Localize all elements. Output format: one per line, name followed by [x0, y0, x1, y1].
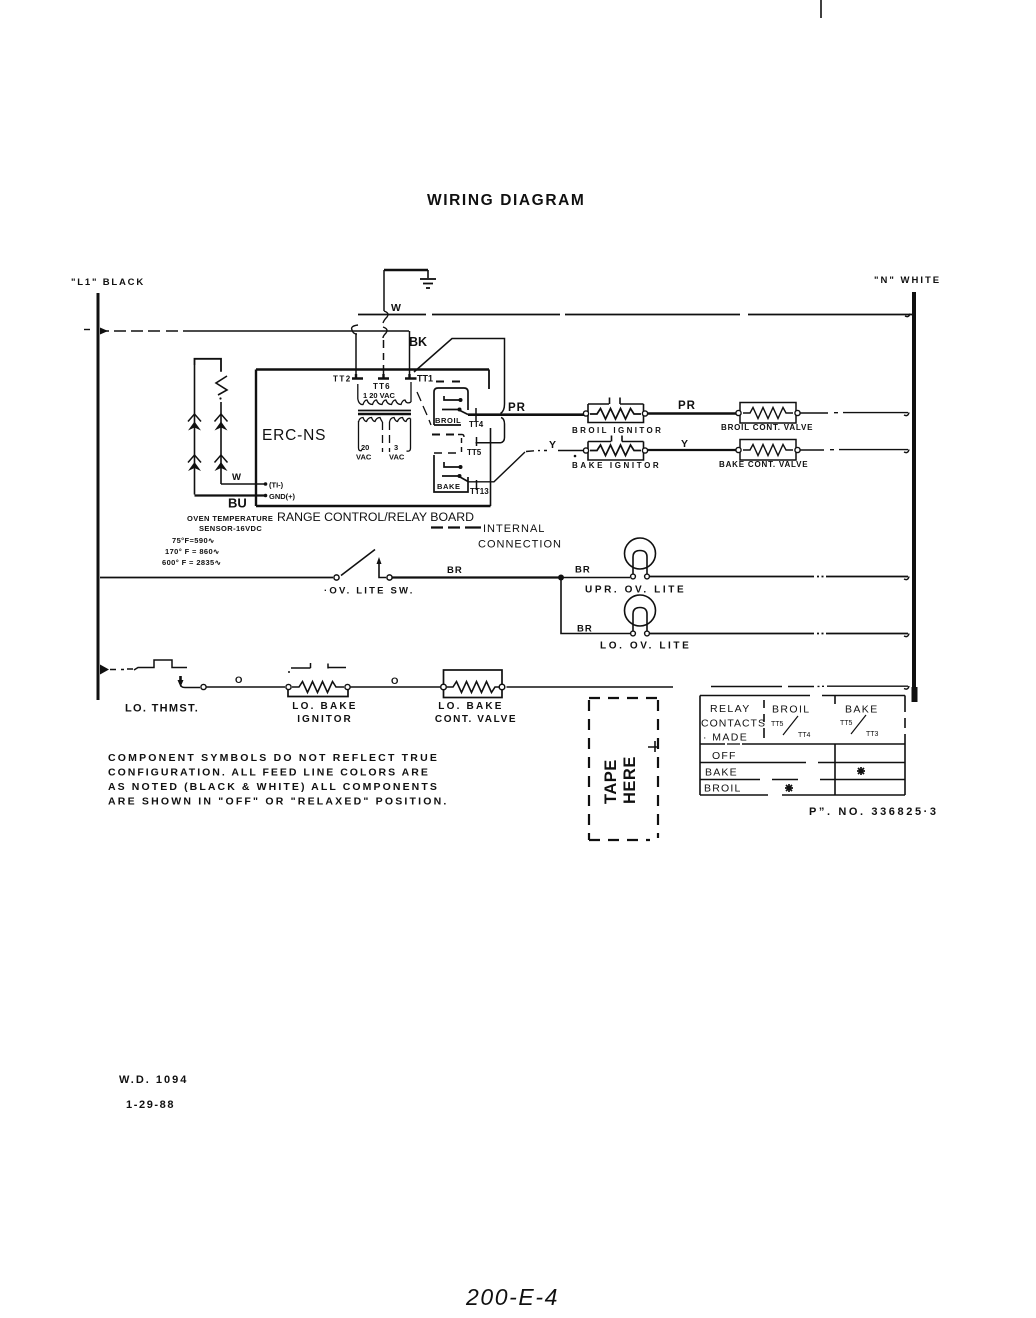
svg-text:TAPE: TAPE: [602, 759, 620, 804]
svg-text:BR: BR: [577, 624, 593, 635]
svg-text:O: O: [391, 676, 398, 687]
svg-text:IGNITOR: IGNITOR: [297, 714, 352, 725]
box ERC-NS range control/relay board: [256, 370, 491, 507]
svg-text:PR: PR: [678, 400, 696, 412]
svg-text:OVEN TEMPERATURE: OVEN TEMPERATURE: [187, 514, 273, 523]
svg-text:O: O: [235, 675, 242, 686]
wire drop to TT2 with hop: [355, 334, 357, 374]
terminal TT1: [405, 374, 417, 379]
sensor oven temperature loop: [195, 359, 228, 495]
svg-text:LO. BAKE: LO. BAKE: [438, 701, 503, 712]
svg-text:W: W: [391, 302, 401, 314]
wire internal dashed to TT5: [432, 434, 454, 436]
svg-text:CONFIGURATION. ALL FEED LINE: CONFIGURATION. ALL FEED LINE COLORS ARE: [108, 767, 430, 779]
wire W line: [358, 314, 912, 316]
svg-text:ARE SHOWN IN "OFF" OR "RELAXED: ARE SHOWN IN "OFF" OR "RELAXED" POSITION…: [108, 796, 449, 808]
table relay contacts: [648, 696, 905, 796]
terminal TT13: [476, 480, 478, 490]
thermostat LO. THMST.: [100, 665, 109, 675]
svg-text:BK: BK: [409, 335, 427, 349]
asterisk bake row: [857, 767, 865, 775]
svg-text:VAC: VAC: [356, 453, 372, 462]
svg-text:TT2: TT2: [333, 375, 352, 384]
wire Y dash-dot: [526, 451, 547, 452]
svg-text:COMPONENT SYMBOLS DO NOT REFLE: COMPONENT SYMBOLS DO NOT REFLECT TRUE: [108, 752, 439, 764]
svg-text:CONTACTS: CONTACTS: [701, 718, 766, 730]
svg-text:TT5: TT5: [840, 720, 853, 727]
stray dot: [574, 455, 577, 458]
svg-text:TT3: TT3: [866, 731, 879, 738]
wire lo bake valve to N bus: [507, 685, 909, 688]
svg-text:BROIL: BROIL: [704, 783, 742, 795]
resistor LO. BAKE CONT. VALVE: [444, 670, 503, 698]
svg-text:WIRING DIAGRAM: WIRING DIAGRAM: [427, 192, 585, 209]
svg-text:LO. BAKE: LO. BAKE: [292, 701, 357, 712]
svg-text:· MADE: · MADE: [703, 732, 748, 744]
wire junction to upper lamp: [561, 577, 630, 579]
wire W hook at N bus: [905, 314, 910, 317]
svg-text:600° F = 2835∿: 600° F = 2835∿: [162, 558, 222, 567]
wire Y row left: [558, 450, 585, 452]
wire lower lamp to N bus: [650, 633, 908, 635]
wire PR mid: [648, 412, 736, 414]
svg-text:HERE: HERE: [621, 756, 639, 804]
terminal TT4: [475, 408, 477, 421]
relay K2 BAKE contact: [434, 453, 468, 492]
svg-text:1-29-88: 1-29-88: [126, 1099, 175, 1111]
svg-text:BR: BR: [447, 565, 463, 576]
bus N: [912, 292, 916, 690]
svg-text:PR: PR: [508, 402, 526, 414]
svg-text:P”. NO. 336825·3: P”. NO. 336825·3: [809, 806, 939, 818]
resistor BROIL IGNITOR: [588, 398, 644, 423]
svg-text:CONNECTION: CONNECTION: [478, 539, 562, 551]
junction dot: [558, 575, 564, 581]
terminal TT5: [476, 437, 478, 446]
wire BK to relay common (diagonal up and over): [414, 339, 505, 414]
resistor BAKE IGNITOR: [588, 436, 644, 461]
resistor BROIL CONT. VALVE: [740, 403, 796, 424]
lamp LO. OV. LITE: [625, 595, 656, 626]
svg-text:(TI-): (TI-): [269, 481, 284, 490]
legend internal connection: [431, 526, 481, 528]
svg-text:20: 20: [361, 443, 369, 452]
svg-text:UPR. OV. LITE: UPR. OV. LITE: [585, 585, 686, 596]
wire L1 to oven light switch: [100, 577, 333, 579]
svg-text:AS NOTED (BLACK & WHITE) ALL: AS NOTED (BLACK & WHITE) ALL COMPONENTS: [108, 781, 439, 793]
wire L1 feed BK: [84, 329, 90, 331]
sensor arrow chevrons left: [188, 414, 201, 463]
svg-text:BROIL: BROIL: [772, 704, 811, 716]
svg-text:LO. THMST.: LO. THMST.: [125, 703, 199, 715]
svg-text:Y: Y: [681, 438, 688, 450]
wire sensor BU to board: [195, 494, 265, 496]
svg-text:ERC-NS: ERC-NS: [262, 427, 326, 444]
svg-text:RANGE CONTROL/RELAY BOARD: RANGE CONTROL/RELAY BOARD: [277, 510, 474, 524]
svg-text:OFF: OFF: [712, 750, 737, 762]
terminal (TI-): [264, 482, 268, 486]
wire internal dashes TT1 to broil relay: [436, 381, 460, 383]
svg-text:RELAY: RELAY: [710, 703, 751, 715]
wire drop to TT1: [409, 331, 411, 374]
stray top-right tick: [820, 0, 822, 18]
svg-text:BAKE CONT. VALVE: BAKE CONT. VALVE: [719, 460, 808, 469]
svg-text:"L1" BLACK: "L1" BLACK: [71, 277, 145, 288]
svg-text:BAKE: BAKE: [437, 482, 461, 491]
bus L1: [97, 293, 100, 700]
resistor LO. BAKE IGNITOR: [288, 663, 348, 697]
box TAPE HERE: [589, 698, 658, 840]
svg-text:CONT. VALVE: CONT. VALVE: [435, 714, 517, 725]
svg-text:170° F = 860∿: 170° F = 860∿: [165, 547, 220, 556]
svg-text:·OV. LITE SW.: ·OV. LITE SW.: [324, 586, 415, 597]
svg-text:VAC: VAC: [389, 453, 405, 462]
transformer secondary 20 VAC: [359, 418, 383, 453]
relay K1 BROIL contact: [434, 388, 468, 425]
svg-text:LO. OV. LITE: LO. OV. LITE: [600, 641, 691, 652]
wire Y mid: [648, 449, 736, 451]
svg-text:TT1: TT1: [417, 374, 433, 384]
svg-text:BAKE: BAKE: [845, 704, 879, 716]
svg-text:BAKE IGNITOR: BAKE IGNITOR: [572, 461, 661, 470]
sensor arrow chevrons right: [215, 414, 228, 463]
wire to lo bake ignitor: [207, 686, 286, 688]
ground: [384, 270, 436, 288]
svg-text:SENSOR-16VDC: SENSOR-16VDC: [199, 524, 262, 533]
terminal TT2: [352, 374, 363, 379]
svg-text:BROIL CONT. VALVE: BROIL CONT. VALVE: [721, 423, 813, 432]
wire upper lamp to N bus: [650, 576, 908, 578]
svg-text:W: W: [232, 472, 241, 483]
wire to lo bake valve: [351, 686, 441, 688]
svg-text:TT5: TT5: [771, 721, 784, 728]
terminal GND(+): [264, 494, 268, 498]
svg-text:"N" WHITE: "N" WHITE: [874, 275, 941, 286]
svg-text:BR: BR: [575, 565, 591, 576]
svg-text:TT4: TT4: [798, 732, 811, 739]
resistor BAKE CONT. VALVE: [740, 440, 796, 461]
wire sensor W to board: [221, 483, 264, 485]
svg-text:GND(+): GND(+): [269, 492, 296, 501]
svg-text:W.D. 1094: W.D. 1094: [119, 1074, 188, 1086]
svg-text:TT6: TT6: [373, 382, 391, 391]
svg-text:TT4: TT4: [469, 420, 484, 429]
asterisk broil row: [785, 784, 793, 792]
svg-text:75°F=590∿: 75°F=590∿: [172, 536, 215, 545]
switch OV. LITE SW.: [334, 575, 339, 580]
svg-text:INTERNAL: INTERNAL: [483, 523, 545, 535]
wire PR row: [468, 413, 585, 416]
wire BR to junction: [393, 576, 562, 578]
svg-text:TT5: TT5: [467, 448, 482, 457]
svg-text:BROIL IGNITOR: BROIL IGNITOR: [572, 426, 663, 435]
svg-text:BAKE: BAKE: [705, 767, 738, 779]
wire Y to N bus: [800, 449, 908, 451]
svg-text:3: 3: [394, 443, 398, 452]
terminal TT6: [378, 374, 389, 379]
wire PR to N bus: [800, 412, 908, 414]
wire branch down to lower lamp: [561, 578, 630, 634]
svg-text:1 20 VAC: 1 20 VAC: [363, 391, 396, 400]
wire ground drop with hops: [383, 270, 385, 311]
wire TT13 diagonal to Y: [468, 452, 525, 482]
svg-text:BROIL: BROIL: [435, 416, 461, 425]
svg-text:Y: Y: [549, 439, 556, 451]
svg-text:200-E-4: 200-E-4: [465, 1284, 559, 1310]
transformer secondary 3 VAC: [390, 418, 411, 453]
lamp UPR. OV. LITE: [625, 538, 656, 569]
transformer core: [358, 410, 411, 412]
svg-text:TT13: TT13: [470, 487, 489, 496]
svg-text:BU: BU: [228, 496, 247, 511]
